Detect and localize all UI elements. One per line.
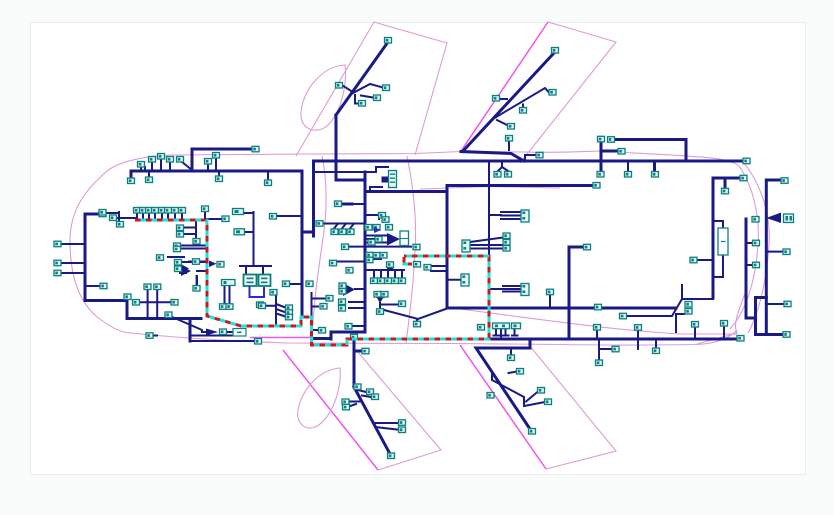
fusebox wide box (222, 280, 236, 286)
door RL connectors (493, 48, 559, 142)
B-pillar arc (406, 156, 416, 343)
cluster A fill (179, 267, 187, 274)
door RL branches (492, 88, 549, 150)
rear right riser (713, 178, 740, 298)
rear right stubs (766, 252, 784, 304)
door FR outline (283, 350, 441, 470)
blue pointer (374, 227, 381, 233)
rear wedge (766, 213, 781, 224)
rear resistor body (718, 228, 728, 255)
front fuse row connectors (99, 208, 290, 287)
cluster B triangle (343, 283, 355, 296)
dash tall connector (389, 171, 397, 188)
sill bright segment (250, 337, 313, 339)
rear connector group hooks (494, 329, 518, 340)
cluster A wires (183, 262, 207, 284)
connector feed left column (312, 293, 327, 330)
instrument feeds (365, 236, 387, 243)
door RR branches (489, 350, 545, 407)
relay feed wires (207, 212, 300, 284)
trunk1 rear mid (447, 307, 676, 310)
front header wire (192, 149, 252, 171)
dash area connectors (259, 201, 421, 333)
door FL connectors (336, 38, 392, 107)
instrument lower cluster connectors (351, 292, 421, 340)
funnel symbol (206, 329, 218, 336)
mid ladder connectors (424, 210, 554, 296)
fusebox vertical cluster (225, 285, 230, 305)
instrument lower cluster wires (380, 303, 447, 321)
door FR connectors (342, 348, 406, 458)
door FL drop (336, 115, 365, 180)
rear window inner arc (730, 166, 758, 329)
rear bottom connectors (478, 302, 745, 366)
rear resistor feed (694, 259, 713, 261)
dash connector block (382, 177, 389, 183)
blue jumper under relays (250, 286, 265, 297)
front lower diagonal (152, 316, 254, 341)
door RR drop (476, 339, 530, 429)
highlighted route cyan dashes (135, 220, 489, 345)
relay K2 (259, 275, 271, 287)
door RR connectors (487, 355, 552, 434)
rear trunk stub T (549, 295, 551, 308)
bottom trunk solid part (489, 338, 737, 341)
door RR leading edge bright (460, 345, 546, 469)
left connector feeds (61, 244, 100, 286)
engine bay cluster connectors (157, 206, 293, 320)
car body bottom edge (131, 330, 737, 345)
spine1 left branches (322, 224, 365, 327)
wedge right of dash (209, 261, 217, 268)
small stub pair below fuse row (168, 212, 207, 285)
rear wide connectors (493, 323, 510, 329)
door FL branches (343, 84, 384, 104)
rear lower left wire (626, 285, 713, 316)
cluster B tie (355, 288, 365, 290)
left front spine (85, 214, 127, 301)
left front connectors (54, 211, 107, 289)
door RL outline (461, 22, 616, 163)
relay K1 (244, 275, 257, 287)
center spine 1 (364, 172, 367, 332)
door FR leading edge bright (283, 350, 378, 470)
engine cluster triangle (179, 263, 189, 274)
door FR mirror (298, 368, 341, 428)
spine1 right branches (365, 215, 411, 277)
center spine 2 (446, 186, 449, 309)
main top trunk wire (131, 161, 743, 317)
rear right tall vertical (766, 180, 779, 333)
dash pigtail wire (314, 167, 389, 192)
front fuse row stubs (105, 212, 182, 224)
rear sill pink line (460, 309, 737, 334)
car body top edge (172, 151, 739, 166)
front trunk stubs (141, 158, 268, 180)
rear stack cluster (676, 314, 684, 332)
cluster A triangle (181, 266, 191, 276)
door FL outline (296, 22, 447, 156)
rear outer arc (744, 163, 769, 333)
door RL harness (463, 53, 554, 151)
instrument box (400, 231, 409, 246)
rear upper connectors (494, 136, 750, 250)
crossbar to spine2 (365, 186, 592, 192)
front lower bend (127, 301, 201, 342)
rear bottom drops (597, 326, 724, 360)
rear resistor wires (713, 221, 723, 277)
rear mid stubs (746, 243, 752, 265)
door sill pink line (420, 187, 560, 190)
spine2 ladders (431, 161, 521, 292)
door FR harness (354, 387, 390, 454)
front bottom connectors (124, 284, 262, 344)
door RL leading edge bright (461, 22, 548, 151)
spine1 bottom bend (313, 332, 365, 339)
rear small curve (697, 291, 746, 344)
door RR outline (460, 345, 616, 469)
rear right connectors (690, 175, 794, 337)
rear mid vertical 746 (746, 219, 783, 335)
small cluster near dash corner (371, 255, 385, 259)
door FL harness (336, 42, 388, 115)
dash branch connector wire (342, 203, 365, 205)
front cross pair (136, 290, 171, 319)
door RL merge (461, 152, 524, 162)
car front bumper outline (70, 155, 172, 333)
hatch marks (334, 224, 354, 229)
highlighted route red dashes (135, 220, 489, 345)
rear upper assembly (601, 140, 686, 173)
rear trunk drops (498, 155, 655, 172)
door FL mirror (301, 65, 346, 130)
inline component box (233, 329, 246, 337)
front fan-out (265, 293, 286, 325)
vertical rear mid (569, 247, 583, 339)
mid ladder left box wires (470, 238, 503, 249)
front trunk connectors (128, 146, 272, 185)
door FR branches (348, 390, 398, 430)
door FR drop (354, 339, 361, 387)
funnel small (387, 266, 394, 273)
A-pillar arc (312, 156, 326, 340)
instrument triangle (387, 233, 400, 246)
instrument lower cluster triangle (376, 296, 385, 304)
